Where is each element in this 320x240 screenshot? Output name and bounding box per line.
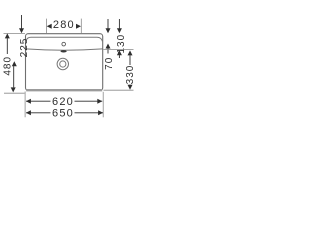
dim 280 right arrow: [76, 24, 81, 29]
dim 650 line: [26, 112, 103, 114]
left bottom extension line: [4, 92, 25, 94]
dim 280 left extension line: [45, 19, 47, 34]
dim 280 left arrow: [47, 24, 52, 29]
dim 480 bottom arrow: [11, 87, 16, 92]
dim 70 top arrow line: [107, 19, 109, 29]
dim 480 top arrow: [5, 33, 10, 38]
dim 130 bottom arrow: [117, 50, 122, 55]
bowl top edge line: [26, 49, 103, 50]
dim 620 left arrow: [26, 99, 31, 104]
svg-text:650: 650: [52, 108, 74, 120]
basin front edge thick line: [26, 89, 102, 91]
svg-text:280: 280: [53, 19, 75, 31]
left top extension line: [4, 32, 26, 34]
svg-text:480: 480: [2, 56, 13, 76]
dim 130 top arrow line: [118, 19, 120, 29]
dim 330 bottom line: [129, 84, 131, 87]
svg-text:225: 225: [19, 38, 30, 58]
dim 620 right arrow: [97, 99, 102, 104]
dim 280 right extension line: [80, 19, 82, 34]
svg-text:620: 620: [52, 96, 74, 108]
dim 650 text: [51, 108, 75, 117]
dim 130 top arrow: [117, 28, 122, 33]
right mid extension line: [103, 48, 133, 50]
dim 225 bottom arrow: [12, 61, 17, 66]
svg-text:330: 330: [125, 65, 136, 85]
right bottom extension line: [104, 89, 134, 91]
svg-text:130: 130: [116, 34, 127, 54]
dim 225 top arrow: [19, 28, 24, 33]
dim 330 top line: [129, 55, 131, 65]
dim 70 top arrow: [106, 28, 111, 33]
dim 650 left arrow: [26, 110, 31, 115]
dim 130 bottom stub: [118, 55, 120, 58]
dim 330 bottom arrow: [128, 85, 133, 90]
bottom right extension line 650: [102, 92, 104, 118]
dim 330 top arrow: [128, 50, 133, 55]
bottom left extension line: [24, 92, 26, 118]
dim 620 line: [26, 100, 102, 102]
dim 70 bottom arrow: [106, 44, 111, 49]
drain inner circle: [60, 61, 66, 67]
dim 70 stub line: [107, 48, 109, 53]
dim 620 text: [51, 97, 75, 106]
svg-text:70: 70: [104, 57, 115, 70]
drain outer circle: [57, 58, 68, 69]
dim 225/480 connector line: [13, 66, 15, 87]
dim 650 right arrow: [98, 110, 103, 115]
dim 480 line: [6, 38, 8, 54]
washbasin outer rim (top view): [26, 34, 103, 91]
faucet hole: [62, 42, 66, 46]
deck back inner line: [26, 37, 102, 41]
overflow slot: [61, 50, 67, 52]
dim 225 top arrow line: [21, 15, 23, 29]
